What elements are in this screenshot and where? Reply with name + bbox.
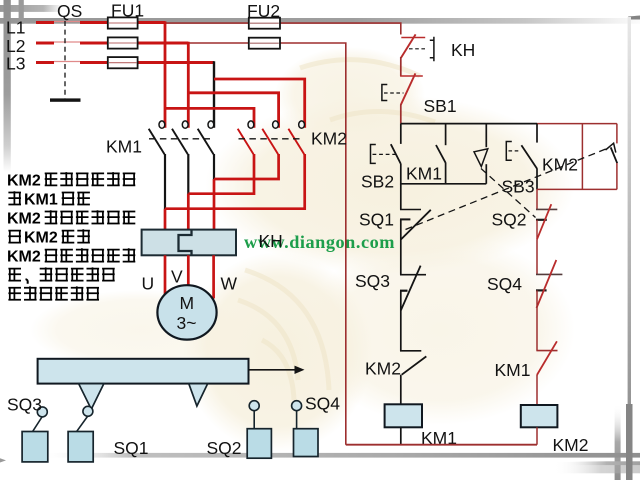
annotation line 3: KM2 dong he chu tou bi he (7, 210, 135, 227)
svg-text:KM2: KM2 (7, 249, 41, 266)
wire V to motor (187, 255, 190, 286)
annotation line 1: KM2 dong duan chu tou duan kai (7, 172, 135, 189)
wire L3 phase line (36, 61, 214, 64)
ground (QS handle bar) (50, 98, 81, 101)
node control top rail (401, 123, 537, 125)
limit switch SQ1 NC contact (400, 184, 431, 275)
svg-text:FU2: FU2 (247, 1, 280, 21)
coil KM2 (521, 405, 558, 427)
limit switch SQ2 NO contact (474, 124, 488, 184)
annotation line 7: gong zuo xiang you yun dong (8, 286, 99, 299)
svg-text:SQ3: SQ3 (355, 271, 390, 291)
node right parallel-group junction (537, 188, 617, 190)
node left parallel-group junction (401, 164, 487, 184)
wire phase U below KM1 pole 1 (164, 154, 166, 209)
wire KM2 group right vertical (581, 124, 583, 190)
svg-text:SQ4: SQ4 (305, 394, 340, 414)
svg-text:SQ1: SQ1 (359, 210, 394, 230)
contact KM2 NC interlock (400, 351, 426, 405)
fuse FU2 (2 fuses) (249, 18, 280, 49)
svg-text:KM2: KM2 (7, 173, 41, 190)
svg-text:SB2: SB2 (361, 172, 394, 192)
svg-text:KH: KH (451, 40, 475, 60)
wire KM2 pole 4 to phase V (crossover) (188, 154, 254, 194)
wire L1 control tap to FU2 and KH (165, 23, 401, 34)
wire W to motor (212, 255, 215, 298)
annotation line 2: dui KM1 lian suo (8, 191, 90, 208)
svg-text:W: W (221, 274, 238, 294)
wire phase C feeder to KM2 contact 6 (214, 79, 305, 128)
thermal relay KH NC contact (control) (401, 34, 434, 61)
svg-text:V: V (171, 267, 183, 287)
wire KM2 pole 5 to phase W (crossover) (214, 154, 279, 179)
contact KM1 NC interlock (536, 341, 557, 405)
annotation line 6: he, dian dong ji fan zhuan (8, 267, 114, 283)
svg-text:M: M (180, 293, 195, 313)
limit switch SQ1 body (68, 406, 93, 462)
limit switch SQ4 body (292, 401, 318, 457)
svg-text:SQ4: SQ4 (487, 274, 522, 294)
limit switch SQ1 NO contact (far right) (606, 124, 618, 190)
workbench moving bar (38, 359, 249, 384)
wire phase V below KM1 pole 2 (187, 154, 189, 194)
wire phase A feeder to KM2 contact 4 (165, 108, 254, 127)
limit switch SQ3 body (22, 407, 48, 462)
svg-text:KM1: KM1 (495, 360, 531, 380)
svg-text:KM2: KM2 (553, 435, 589, 455)
wire U to motor (164, 255, 167, 298)
pushbutton SB2 forward start (NO) (371, 124, 401, 164)
svg-text:3~: 3~ (177, 313, 197, 333)
thermal relay KH heater box (142, 230, 236, 256)
contactor KM1 main contacts (3 poles) (149, 121, 214, 154)
wire KH to SB1 (400, 57, 402, 76)
limit switch SQ3 NC contact (protection) (400, 266, 426, 351)
svg-text:KM2: KM2 (24, 230, 58, 247)
svg-text:KH: KH (259, 231, 283, 251)
wire phase B drop (L2 to KM1 contact 2) (187, 42, 190, 128)
annotation line 4: dui KM2 zi suo (8, 229, 90, 246)
svg-text:KM1: KM1 (24, 192, 58, 209)
wire L1 phase line (36, 21, 165, 24)
wire phase B feeder to KM2 contact 5 (188, 93, 278, 128)
limit switch SQ2 NC contact (536, 189, 557, 274)
wire L2 phase line (36, 42, 188, 45)
svg-text:SQ2: SQ2 (492, 210, 527, 230)
linkage SQ1 mechanical dashed tie (406, 149, 608, 230)
annotation line 5: KM2 dong he zhu chu tou bi (7, 248, 135, 265)
wire phase A drop (L1 to KM1 contact 1) (164, 21, 167, 128)
fuse FU1 (3 fuses) (108, 17, 138, 68)
svg-text:L3: L3 (6, 54, 25, 74)
svg-text:SQ1: SQ1 (114, 438, 149, 458)
limit switch SQ2 body (247, 401, 271, 459)
motor M 3~ (157, 285, 216, 339)
svg-text:QS: QS (57, 1, 82, 21)
wire phase W below KM1 pole 3 (213, 154, 215, 179)
svg-text:L1: L1 (6, 18, 25, 38)
svg-text:KM2: KM2 (365, 359, 401, 379)
linkage SQ2 mechanical dashed tie (481, 169, 536, 218)
contactor KM2 main contacts (3 poles) (238, 121, 305, 154)
wire KM2 pole 6 to phase U (crossover) (165, 154, 305, 209)
limit switch SQ4 NC contact (protection) (536, 260, 562, 351)
svg-text:U: U (142, 274, 155, 294)
svg-text:KM1: KM1 (106, 137, 142, 157)
cam dog left (79, 384, 104, 410)
cam dog right (189, 384, 208, 406)
svg-text:SB1: SB1 (424, 96, 457, 116)
wire SB1 to rail (400, 105, 402, 124)
svg-text:SQ2: SQ2 (207, 438, 242, 458)
svg-text:KM2: KM2 (311, 129, 347, 149)
disconnect switch QS (blades + shaft) (54, 21, 80, 99)
contact KM1 auxiliary self-hold (NO) (436, 124, 446, 184)
svg-text:FU1: FU1 (111, 1, 144, 21)
wire phase C drop (L3 to KM1 contact 3) (213, 61, 215, 128)
svg-text:KM2: KM2 (542, 155, 578, 175)
wire KM1 coil to bottom rail (400, 427, 402, 444)
wire bottom return rail (346, 444, 537, 446)
svg-text:KM2: KM2 (7, 211, 41, 228)
pushbutton SB1 stop (NC) (382, 73, 423, 104)
pushbutton SB3 reverse start (NO) (506, 124, 537, 190)
arrow travel direction (249, 366, 305, 374)
svg-text:KM1: KM1 (406, 164, 442, 184)
wire L2 control tap to FU2 and supply rail (188, 43, 345, 445)
wire KM2 coil to bottom rail (536, 427, 538, 444)
coil KM1 (385, 404, 422, 427)
svg-text:SQ3: SQ3 (7, 395, 42, 415)
